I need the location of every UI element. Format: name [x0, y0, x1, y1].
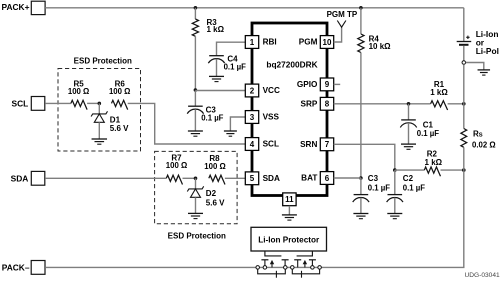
wire D2 lower stub	[195, 197, 197, 213]
wire Q1 bypass tick	[275, 271, 277, 278]
svg-text:0.1 µF: 0.1 µF	[368, 183, 390, 192]
node junction PACK+/R4	[359, 6, 363, 10]
zener diode D2	[187, 186, 203, 191]
wire GPIO stub	[334, 83, 341, 85]
svg-text:RBI: RBI	[263, 38, 277, 47]
wire D1 upper stub	[98, 103, 100, 114]
ground C2	[387, 213, 402, 215]
node FET terminal 6	[318, 266, 322, 270]
wire R7 to junction	[183, 177, 196, 179]
resistor R6	[112, 100, 128, 109]
capacitor C1	[401, 119, 416, 121]
wire Q2 bypass loop	[292, 269, 319, 274]
svg-text:SRP: SRP	[301, 99, 318, 108]
ground pin 11	[282, 214, 297, 216]
resistor R1	[431, 101, 448, 110]
wire SRP pin 8 to R1	[334, 103, 431, 105]
svg-text:100 Ω: 100 Ω	[204, 162, 225, 171]
transistor Q2 body arrow	[304, 262, 306, 267]
wire C1 upper stub	[408, 104, 410, 120]
node D1 junction	[98, 102, 102, 106]
svg-text:SDA: SDA	[11, 174, 29, 184]
capacitor C3 (BAT)	[354, 194, 369, 196]
capacitor C3 (VCC)	[188, 105, 203, 107]
svg-text:VSS: VSS	[263, 113, 280, 122]
pin 6 box	[320, 172, 333, 185]
svg-text:1: 1	[250, 38, 255, 47]
pin 3 box	[245, 111, 258, 124]
capacitor C2	[388, 194, 403, 196]
svg-text:C2: C2	[403, 174, 414, 183]
svg-text:4: 4	[250, 140, 255, 149]
svg-text:Li-Pol: Li-Pol	[476, 46, 499, 56]
terminal SCL box	[31, 97, 45, 111]
pin 5 box	[245, 172, 258, 185]
svg-text:PGM TP: PGM TP	[327, 10, 358, 19]
wire SDA to R7	[45, 177, 166, 179]
ESD protection box 2	[155, 151, 238, 223]
resistor Rs	[461, 129, 467, 148]
node D2 junction	[194, 177, 198, 181]
node FET terminal 3	[284, 266, 288, 270]
svg-text:VCC: VCC	[263, 86, 280, 95]
resistor R4	[358, 34, 364, 52]
Li-Ion Protector box	[251, 227, 327, 251]
wire C2 lower stub	[394, 198, 396, 214]
wire C3 BAT lower stub	[360, 198, 362, 214]
zener diode D1	[91, 111, 107, 116]
pin 9 box	[320, 78, 333, 91]
wire R3 top lead	[194, 8, 196, 19]
node junction PACK+/R3	[194, 6, 198, 10]
svg-text:3: 3	[250, 113, 255, 122]
ground C1	[401, 143, 416, 145]
wire SCL to R5	[45, 102, 71, 104]
ground C4	[209, 75, 224, 77]
op-amp U1 bq27200DRK body	[252, 23, 327, 196]
svg-text:bq27200DRK: bq27200DRK	[266, 60, 317, 70]
wire node down to SRP row	[463, 64, 465, 103]
svg-text:SCL: SCL	[263, 140, 279, 149]
node FET terminal 5	[311, 266, 315, 270]
wire R4 to BAT node	[360, 53, 362, 179]
svg-text:100 Ω: 100 Ω	[166, 161, 187, 170]
test point PGM TP	[337, 21, 346, 28]
svg-text:PACK–: PACK–	[2, 263, 30, 273]
resistor R3	[192, 19, 198, 36]
pin 4 box	[245, 138, 258, 151]
pin 8 box	[320, 97, 333, 110]
wire C4 lower stub	[216, 59, 218, 77]
transistor Q1 contacts	[261, 259, 268, 261]
resistor R8	[209, 175, 225, 184]
node C2 junction	[393, 168, 397, 172]
wire battery to node	[463, 46, 465, 61]
wire Rs lower lead	[463, 147, 465, 170]
svg-text:BAT: BAT	[301, 174, 317, 183]
svg-text:9: 9	[325, 80, 330, 89]
svg-text:11: 11	[285, 195, 294, 204]
terminal SDA box	[31, 171, 45, 185]
wire C1 lower stub	[408, 123, 410, 144]
pin 2 box	[245, 84, 258, 97]
ground battery	[478, 69, 491, 71]
wire node to ground branch	[466, 63, 484, 70]
svg-text:5.6 V: 5.6 V	[110, 124, 129, 133]
wire R8 to pin 5 SDA	[225, 177, 245, 179]
wire SRN pin 7 to C2 node	[334, 144, 395, 170]
node FET terminal 2	[263, 266, 267, 270]
wire sense node down to PACK- rail	[45, 170, 464, 267]
svg-text:5: 5	[250, 174, 255, 183]
resistor R7	[166, 175, 182, 184]
wire pin 10 to test point	[334, 27, 342, 42]
wire Q2 bypass tick	[301, 271, 303, 278]
wire C3 BAT upper stub	[360, 178, 362, 195]
pin 1 box	[245, 36, 258, 49]
wire RBI to C4	[217, 42, 246, 56]
wire D1 lower stub	[98, 122, 100, 139]
resistor R2	[424, 167, 440, 176]
svg-text:0.1 µF: 0.1 µF	[403, 183, 425, 192]
ground D1	[92, 138, 108, 140]
svg-text:SDA: SDA	[263, 174, 280, 183]
ground D2	[188, 212, 203, 214]
svg-text:7: 7	[325, 140, 330, 149]
terminal PACK- box	[31, 261, 45, 275]
svg-text:10: 10	[323, 38, 332, 47]
wire C2 upper stub	[394, 170, 396, 195]
wire Q2 gate riser	[297, 251, 313, 256]
node VCC junction	[194, 88, 198, 92]
wire PACK+ down to battery	[463, 8, 465, 42]
svg-text:1 kΩ: 1 kΩ	[430, 88, 448, 97]
svg-text:UDG-03041: UDG-03041	[465, 272, 500, 279]
wire R6 to pin 4 SCL	[128, 103, 246, 144]
wire PACK+ rail	[45, 7, 464, 9]
wire Q1 gate riser	[265, 251, 282, 256]
svg-text:8: 8	[325, 100, 330, 109]
wire VCC to pin 2	[195, 90, 245, 92]
ground C3 VCC	[188, 130, 203, 132]
svg-text:PACK+: PACK+	[2, 2, 30, 12]
wire C2 node to R2	[395, 169, 425, 171]
node R2/Rs junction	[462, 168, 466, 172]
wire Q1 bypass loop	[258, 269, 286, 274]
svg-text:PGM: PGM	[299, 38, 318, 47]
wire Rs upper lead	[463, 104, 465, 129]
svg-text:10 kΩ: 10 kΩ	[369, 42, 392, 51]
svg-text:100 Ω: 100 Ω	[109, 87, 130, 96]
node FET terminal 1	[256, 266, 260, 270]
transistor Q1 body arrow	[271, 262, 273, 267]
pin 7 box	[320, 138, 333, 151]
wire R1 to sense node	[448, 103, 464, 105]
wire R3 to VCC node	[194, 36, 196, 90]
svg-text:5.6 V: 5.6 V	[206, 199, 225, 208]
wire C3 lower stub	[194, 109, 196, 131]
node C1 junction	[407, 102, 411, 106]
resistor R5	[71, 100, 87, 109]
svg-text:ESD Protection: ESD Protection	[168, 231, 226, 240]
svg-text:0.1 µF: 0.1 µF	[224, 63, 246, 72]
svg-text:D1: D1	[110, 115, 121, 124]
svg-text:0.1 µF: 0.1 µF	[417, 129, 439, 138]
svg-text:C3: C3	[368, 174, 379, 183]
svg-text:Li-Ion Protector: Li-Ion Protector	[258, 235, 320, 244]
svg-text:100 Ω: 100 Ω	[68, 87, 89, 96]
node battery negative	[462, 61, 466, 65]
svg-text:D2: D2	[206, 189, 217, 198]
svg-text:SRN: SRN	[300, 140, 317, 149]
svg-text:1 kΩ: 1 kΩ	[425, 158, 443, 167]
wire BAT pin 6 to node	[334, 177, 361, 179]
terminal PACK+ box	[31, 1, 45, 14]
pin 10 box	[320, 36, 333, 49]
capacitor C4	[209, 55, 224, 57]
svg-text:0.02 Ω: 0.02 Ω	[472, 140, 496, 149]
battery B1 Li-Ion	[457, 41, 472, 43]
wire R4 top lead	[360, 8, 362, 34]
ground C3 BAT	[353, 213, 368, 215]
svg-text:R2: R2	[427, 149, 438, 158]
wire VSS to ground	[230, 117, 245, 131]
wire D2 upper stub	[195, 178, 197, 189]
svg-text:1 kΩ: 1 kΩ	[207, 25, 225, 34]
svg-text:SCL: SCL	[12, 99, 29, 109]
ESD protection box 1	[58, 69, 141, 152]
pin 11 box	[283, 193, 296, 206]
node R1/Rs junction	[462, 102, 466, 106]
svg-text:6: 6	[325, 174, 330, 183]
wire R5 to junction	[87, 102, 99, 104]
wire C3 upper stub	[194, 91, 196, 107]
wire R2 to sense node	[441, 169, 464, 171]
wire pin 11 to ground	[288, 206, 290, 215]
node FET terminal 4	[291, 266, 295, 270]
transistor Q2 contacts	[294, 259, 301, 261]
svg-text:GPIO: GPIO	[297, 80, 318, 89]
svg-text:2: 2	[250, 86, 255, 95]
ground VSS	[224, 130, 237, 132]
svg-text:0.1 µF: 0.1 µF	[201, 113, 223, 122]
node BAT junction	[359, 176, 363, 180]
svg-text:ESD Protection: ESD Protection	[74, 57, 132, 66]
